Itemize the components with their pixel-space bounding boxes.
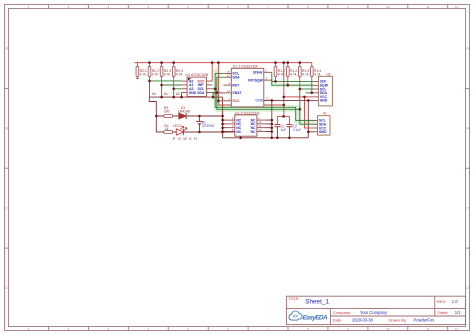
svg-text:INT/SQW: INT/SQW bbox=[248, 78, 263, 82]
svg-text:14: 14 bbox=[227, 89, 231, 93]
svg-text:Company:: Company: bbox=[333, 310, 351, 315]
node A0 bbox=[152, 92, 156, 96]
battery B1 bbox=[196, 116, 214, 132]
resistor R1.4 bbox=[310, 63, 321, 93]
svg-text:Sheet_1: Sheet_1 bbox=[305, 299, 329, 306]
svg-text:EasyEDA: EasyEDA bbox=[303, 315, 328, 322]
resistor R2.4 bbox=[172, 63, 183, 89]
svg-text:VCC: VCC bbox=[197, 79, 205, 83]
svg-text:1/1: 1/1 bbox=[455, 310, 461, 315]
svg-text:SDA: SDA bbox=[197, 91, 205, 95]
svg-text:11: 11 bbox=[426, 5, 429, 9]
svg-text:1.0: 1.0 bbox=[452, 299, 458, 304]
wire green SCL row to H2 bbox=[300, 88, 315, 90]
svg-text:A1: A1 bbox=[164, 92, 168, 96]
svg-text:12: 12 bbox=[455, 5, 459, 9]
connector H2 bbox=[314, 73, 332, 106]
svg-text:SDA: SDA bbox=[232, 75, 240, 79]
wire green SCL net U1.1 U2 to H1 bbox=[212, 73, 313, 120]
svg-text:15: 15 bbox=[227, 74, 231, 78]
svg-text:TITLE:: TITLE: bbox=[288, 297, 299, 301]
junction dots bbox=[148, 61, 313, 139]
svg-text:Your Company: Your Company bbox=[360, 310, 388, 315]
svg-text:GND: GND bbox=[255, 99, 263, 103]
resistor Rx bbox=[164, 124, 173, 133]
svg-text:4.7k: 4.7k bbox=[140, 72, 147, 76]
svg-text:GND: GND bbox=[320, 99, 328, 103]
wire green A2 bbox=[174, 89, 182, 97]
svg-text:11: 11 bbox=[426, 327, 429, 331]
node A1 bbox=[164, 92, 168, 96]
resistor R2.1 bbox=[136, 63, 147, 79]
IC U2 AT24C32N bbox=[182, 73, 213, 97]
svg-text:RST: RST bbox=[232, 83, 240, 87]
svg-text:1uF: 1uF bbox=[281, 128, 287, 132]
svg-text:1N4148: 1N4148 bbox=[178, 109, 190, 113]
resistor R3 bbox=[164, 106, 173, 118]
svg-text:LED1: LED1 bbox=[173, 124, 182, 128]
IC U1.2 DS3231M bbox=[227, 111, 265, 136]
capacitor C2 bbox=[286, 116, 301, 137]
svg-text:GND: GND bbox=[189, 91, 197, 95]
resistor R1.2 bbox=[286, 63, 297, 86]
svg-text:PowderFox: PowderFox bbox=[414, 318, 435, 323]
wire VCC top rail bbox=[134, 62, 311, 64]
svg-text:GND: GND bbox=[319, 130, 327, 134]
svg-text:Sheet:: Sheet: bbox=[437, 311, 448, 315]
svg-text:32kHz: 32kHz bbox=[253, 71, 263, 75]
node A2 bbox=[176, 92, 180, 96]
svg-text:VCC: VCC bbox=[232, 99, 240, 103]
connector H1 bbox=[314, 112, 331, 135]
wire POWER bottom row LED battery bbox=[156, 132, 240, 138]
svg-text:A0: A0 bbox=[152, 92, 156, 96]
svg-text:4.7k: 4.7k bbox=[290, 72, 297, 76]
svg-text:4.7k: 4.7k bbox=[278, 72, 285, 76]
capacitor C1 bbox=[274, 116, 286, 137]
svg-text:A2: A2 bbox=[176, 92, 180, 96]
resistor R1.1 bbox=[274, 63, 285, 82]
node POWER bbox=[173, 137, 197, 141]
svg-text:CR2032: CR2032 bbox=[202, 124, 215, 128]
svg-text:200: 200 bbox=[164, 109, 170, 113]
wire POWER top row D1 battery bbox=[156, 115, 222, 117]
wire VCC vertical to U1.1 VCC and caps bbox=[218, 63, 283, 105]
svg-text:NC: NC bbox=[251, 130, 256, 134]
resistor R2.3 bbox=[160, 63, 171, 85]
svg-text:Date:: Date: bbox=[333, 318, 343, 323]
LED LED1 bbox=[173, 124, 187, 135]
svg-text:1k: 1k bbox=[165, 127, 169, 131]
svg-text:REV:: REV: bbox=[437, 299, 446, 304]
svg-text:12: 12 bbox=[455, 327, 459, 331]
wire GND row pin13 to H2 and H1 bbox=[223, 100, 315, 137]
wire U2 GND drop bbox=[181, 93, 183, 98]
IC U1.1 DS3231M bbox=[223, 65, 271, 107]
wire green SDA net U1.1 U2 to H1 bbox=[212, 77, 313, 124]
wire green A0 bbox=[150, 81, 182, 97]
net highlight halo SDA/SCL bbox=[217, 72, 314, 123]
wire VCC vertical V1 to H2 VCC row and caps rail bbox=[277, 63, 314, 128]
svg-text:4.7k: 4.7k bbox=[302, 72, 309, 76]
diode D1 bbox=[178, 106, 190, 119]
wire green A1 bbox=[162, 85, 182, 97]
resistor R1.3 bbox=[298, 63, 309, 89]
svg-text:10: 10 bbox=[386, 327, 390, 331]
svg-text:Drawn By:: Drawn By: bbox=[389, 318, 407, 323]
svg-text:0.1uF: 0.1uF bbox=[293, 128, 302, 132]
svg-text:10: 10 bbox=[386, 5, 390, 9]
svg-text:4.7k: 4.7k bbox=[164, 72, 171, 76]
svg-text:13: 13 bbox=[266, 97, 270, 101]
title block bbox=[286, 296, 465, 324]
svg-text:12: 12 bbox=[258, 128, 262, 132]
svg-text:NC: NC bbox=[236, 130, 241, 134]
svg-text:4.7k: 4.7k bbox=[176, 72, 183, 76]
svg-text:U2 AT24C32N: U2 AT24C32N bbox=[186, 73, 209, 77]
resistor R2.2 bbox=[148, 63, 159, 81]
svg-text:H1: H1 bbox=[323, 112, 327, 116]
wire green INTSQW to H2 bbox=[272, 80, 315, 85]
wire rail2 VBAT net bbox=[149, 93, 223, 138]
svg-text:4.7k: 4.7k bbox=[152, 72, 159, 76]
svg-text:VBAT: VBAT bbox=[232, 91, 242, 95]
wire VCC drop to U2 pin VCC bbox=[211, 63, 213, 82]
svg-text:2020-03-30: 2020-03-30 bbox=[352, 318, 374, 323]
wire green 32kHz to H2 bbox=[272, 72, 315, 81]
wire green SDA row to H2 bbox=[306, 92, 315, 94]
EasyEDA logo bbox=[289, 311, 328, 322]
svg-text:4.7k: 4.7k bbox=[314, 72, 321, 76]
